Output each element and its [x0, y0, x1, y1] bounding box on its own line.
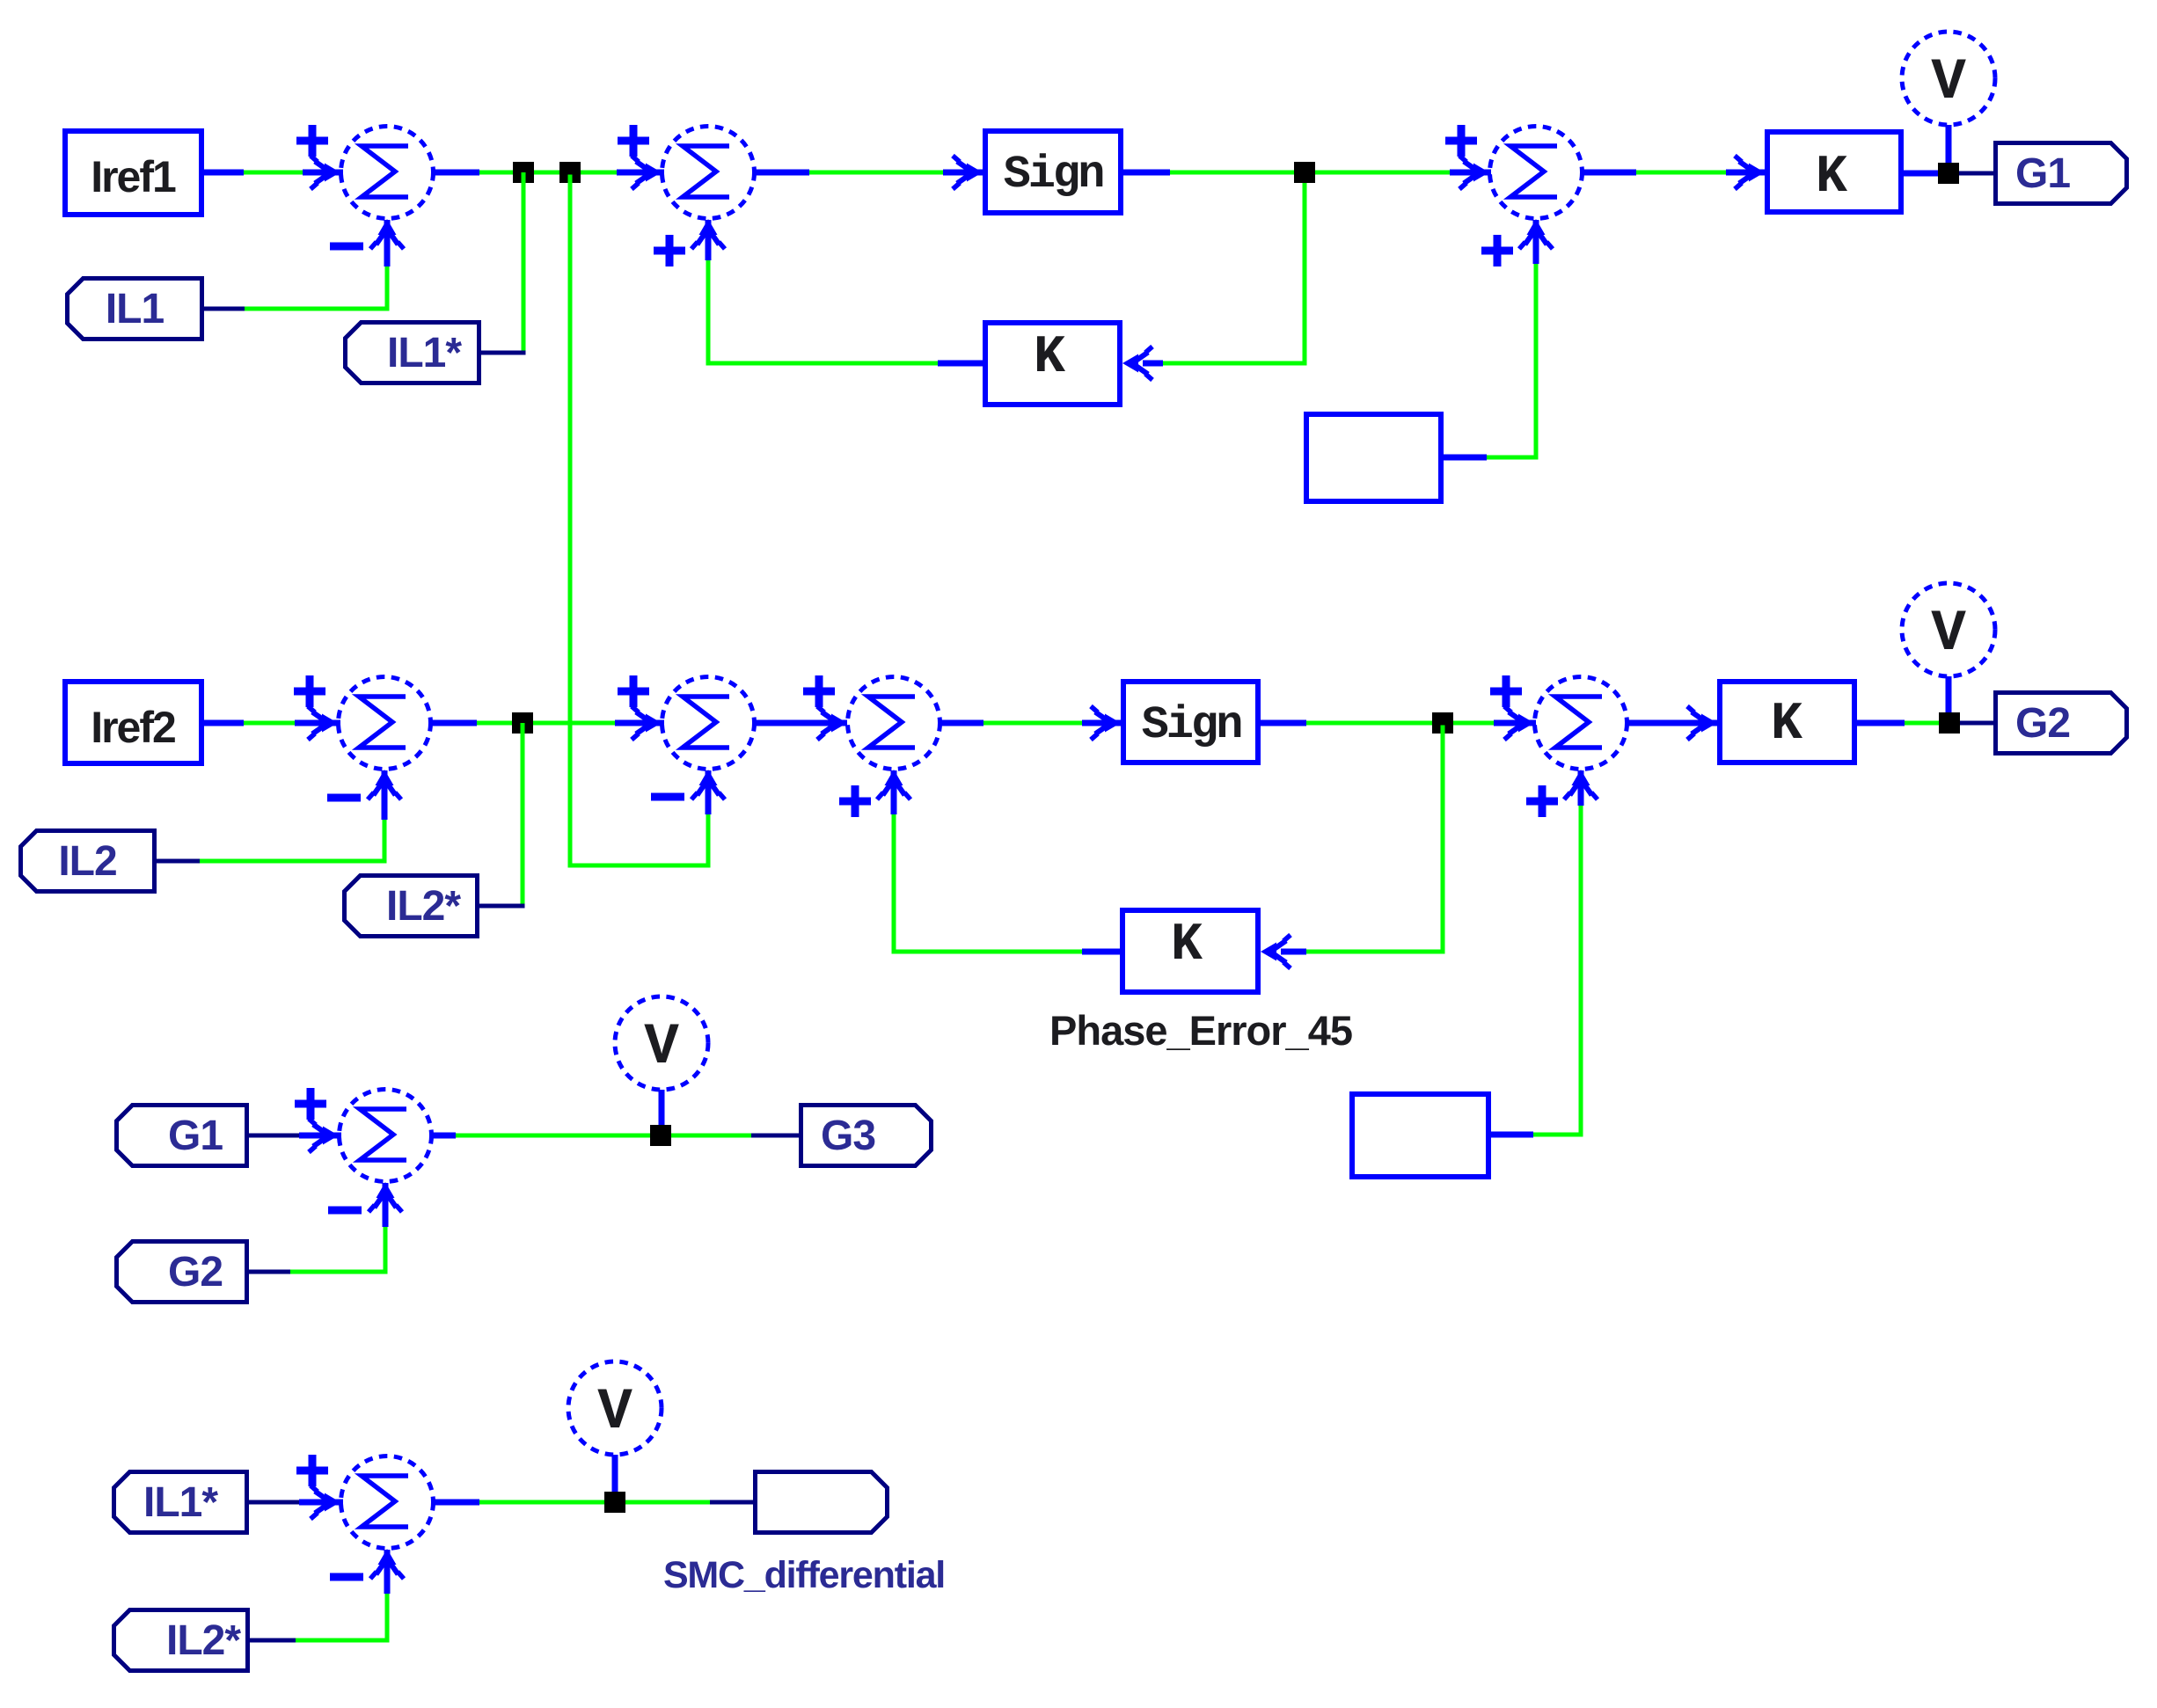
arrow into K feedback right side [1122, 347, 1152, 380]
plus sign S3 bottom input [1481, 235, 1513, 266]
voltage sensor V4 [568, 1361, 662, 1455]
wire K feedback row2 to S6 bottom [892, 770, 1121, 954]
junction node A [513, 162, 534, 183]
wire S8 output to node H and tag G3 [432, 1133, 799, 1139]
input tag IL2* bottom [114, 1610, 248, 1671]
source block Iref1 [65, 131, 201, 215]
minus sign S4 bottom input [327, 794, 361, 802]
input tag G1 [117, 1106, 247, 1166]
output tag G3 [801, 1106, 932, 1166]
junction node H [650, 1125, 671, 1146]
svg-text:V: V [1931, 601, 1966, 667]
svg-text:Sign: Sign [1142, 699, 1242, 751]
summer S3 [1459, 127, 1583, 250]
wire junction F down to K feedback row2 [1281, 726, 1445, 954]
arrow into Sign block row2 [1091, 706, 1121, 740]
plus sign S3 left input [1445, 125, 1477, 157]
svg-text:IL2*: IL2* [386, 883, 461, 930]
gain block K row2 [1720, 682, 1854, 763]
arrow into Sign block row1 [953, 156, 983, 189]
wire S2 bottom from feedback gain K [706, 220, 983, 366]
svg-text:Iref1: Iref1 [91, 152, 176, 201]
svg-text:K: K [1171, 916, 1203, 975]
wire delay block to S3 bottom [1444, 220, 1539, 460]
plus sign S7 left input [1490, 675, 1522, 707]
svg-text:SMC_differential: SMC_differential [663, 1554, 945, 1596]
wire S6 output to Sign block row2 [940, 720, 1121, 726]
svg-text:Sign: Sign [1004, 149, 1104, 201]
wire Sign row2 to junction F and summer S7 [1261, 720, 1536, 726]
plus sign S4 left input [294, 675, 325, 707]
svg-text:G1: G1 [2015, 150, 2070, 197]
wire V1 stub [1946, 125, 1952, 173]
wire S9 output to node I and blank tag [434, 1500, 753, 1506]
annotation Phase_Error_45 [1049, 1007, 1352, 1054]
voltage sensor V2 [1902, 583, 1995, 676]
wire K row2 to node G and tag G2 [1857, 720, 1993, 726]
wire V2 stub [1946, 676, 1952, 723]
svg-text:IL1*: IL1* [143, 1479, 218, 1526]
plus sign S7 bottom input [1526, 785, 1558, 817]
svg-text:IL1*: IL1* [387, 330, 462, 376]
summer S8 [309, 1090, 432, 1213]
svg-text:K: K [1771, 695, 1802, 755]
wire S5 output to summer S6 [755, 720, 847, 726]
wire G2 to S8 bottom [249, 1183, 388, 1274]
summer S2 [632, 127, 755, 250]
wire IL1 to S1 bottom [204, 220, 390, 311]
wire IL1* to summer S9 [249, 1500, 343, 1505]
summer S7 [1504, 677, 1627, 800]
feedback gain block K row2 [1122, 910, 1258, 992]
minus sign S8 bottom input [328, 1207, 362, 1215]
delay block row1 (unlabeled) [1306, 414, 1441, 501]
plus sign S6 bottom input [839, 785, 871, 817]
wire Sign to junction C and summer S3 [1123, 170, 1491, 176]
output tag blank [756, 1472, 888, 1533]
svg-text:K: K [1816, 148, 1847, 208]
wire V4 stub [612, 1455, 618, 1502]
svg-text:G2: G2 [168, 1249, 223, 1296]
plus sign S6 left input [803, 675, 835, 707]
wire Iref1 to summer S1 [204, 170, 343, 176]
svg-text:K: K [1034, 328, 1065, 388]
wire S4 output to summer S5 [431, 720, 664, 726]
wire IL2* to node E branch [479, 904, 525, 909]
wire junction C to K feedback input [1143, 175, 1307, 364]
arrow into K feedback row2 right side [1261, 935, 1291, 968]
plus sign S9 left input [296, 1455, 328, 1486]
summer S6 [817, 677, 940, 800]
svg-text:G3: G3 [821, 1113, 875, 1159]
svg-text:G1: G1 [168, 1113, 223, 1159]
label tag IL1 [68, 279, 202, 339]
svg-text:Iref2: Iref2 [91, 703, 175, 752]
svg-text:V: V [644, 1014, 679, 1080]
wire node E down to IL2* tag [521, 723, 525, 906]
wire K to node D and tag G1 [1904, 171, 1993, 177]
wire Iref2 to summer S4 [204, 720, 340, 726]
plus sign S5 left input [618, 675, 649, 707]
minus sign S1 bottom input [330, 243, 363, 251]
plus sign S8 left input [295, 1088, 326, 1120]
summer S5 [632, 677, 755, 800]
wire S3 output to gain K row1 [1583, 170, 1765, 176]
voltage sensor V1 [1902, 32, 1995, 125]
svg-text:IL1: IL1 [106, 286, 165, 332]
wire IL1* to node A branch [481, 351, 526, 355]
summer S9 [311, 1456, 434, 1580]
wire IL2* to S9 bottom [250, 1550, 390, 1643]
junction node C [1294, 162, 1315, 183]
plus sign S2 left input [618, 125, 649, 157]
block Sign row2 [1123, 682, 1258, 763]
label tag IL1* row1 [346, 323, 479, 383]
wire S7 output to gain K row2 [1627, 720, 1717, 726]
annotation SMC_differential [663, 1554, 945, 1596]
junction node G [1939, 712, 1960, 734]
wire node B down to S5 bottom input [568, 175, 711, 868]
svg-text:IL2*: IL2* [166, 1617, 241, 1664]
summer S1 [311, 127, 434, 250]
minus sign S9 bottom input [330, 1573, 363, 1581]
junction node F [1432, 712, 1453, 734]
input tag IL1* bottom [114, 1472, 247, 1533]
junction node E [512, 712, 533, 734]
minus sign S5 bottom input [651, 793, 684, 801]
svg-text:G2: G2 [2015, 700, 2070, 747]
input tag G2 [117, 1242, 247, 1303]
wire node A down to IL1* tag [522, 172, 526, 353]
block Sign row1 [985, 131, 1121, 213]
wire S1 output to summer S2 [434, 170, 664, 176]
svg-text:IL2: IL2 [58, 838, 116, 885]
plus sign S1 left input [296, 125, 328, 157]
gain block K row1 [1767, 132, 1901, 212]
output tag G2 row2 [1996, 693, 2127, 754]
svg-text:Phase_Error_45: Phase_Error_45 [1049, 1007, 1352, 1054]
label tag IL2 [21, 831, 155, 892]
junction node D [1938, 163, 1959, 184]
junction node B [559, 162, 581, 183]
svg-text:V: V [597, 1379, 632, 1445]
wire G1 to summer S8 [249, 1134, 341, 1138]
summer S4 [308, 677, 431, 800]
arrow into gain K row1 [1735, 156, 1765, 189]
label tag IL2* row2 [345, 876, 478, 937]
arrow into gain K row2 [1687, 706, 1717, 740]
wire V3 stub [659, 1090, 665, 1135]
source block Iref2 [65, 682, 201, 763]
wire delay block row2 to S7 bottom [1491, 770, 1583, 1137]
voltage sensor V3 [615, 996, 708, 1090]
plus sign S2 bottom input [654, 235, 685, 266]
feedback gain block K row1 [985, 323, 1120, 405]
junction node I [604, 1492, 625, 1513]
wire IL2 to S4 bottom [157, 770, 387, 864]
svg-text:V: V [1931, 49, 1966, 115]
delay block row2 (unlabeled) [1352, 1094, 1488, 1177]
output tag G1 row1 [1996, 143, 2127, 204]
wire S2 output to Sign block [755, 170, 983, 176]
